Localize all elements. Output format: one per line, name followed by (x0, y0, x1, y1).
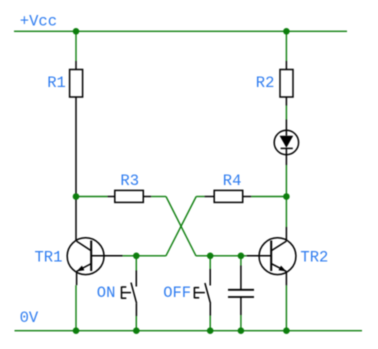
resistor R2 (280, 61, 293, 106)
+Vcc rail wire (14, 30, 347, 32)
switch ON (push-to-make) (122, 271, 137, 317)
junction capacitor / 0V (238, 327, 245, 334)
svg-text:R3: R3 (120, 172, 139, 190)
wire R3 to cross diagonal (151, 196, 166, 198)
wire TR1 base to cross (123, 255, 166, 257)
wire LED to junction (285, 165, 287, 197)
wire R2 to LED (285, 106, 287, 120)
junction +Vcc/R2 (283, 28, 290, 35)
svg-text:ON: ON (97, 284, 116, 302)
wire R1 to TR1 collector (black) (75, 97, 77, 241)
junction TR2 emitter / 0V (283, 327, 290, 334)
wire base to capacitor (240, 256, 242, 266)
svg-text:R2: R2 (256, 74, 275, 92)
svg-text:R1: R1 (47, 74, 66, 92)
svg-text:OFF: OFF (163, 284, 191, 302)
svg-text:R4: R4 (223, 172, 242, 190)
wire TR2 emitter to 0V (285, 285, 287, 330)
transistor TR2 (NPN) (247, 227, 296, 285)
junction TR1 emitter / 0V (73, 327, 80, 334)
wire TR2 base horizontal (196, 255, 247, 257)
svg-text:TR2: TR2 (300, 249, 328, 267)
wire cross-couple R3 to TR2 base (diagonal) (166, 197, 196, 256)
wire base to ON switch (135, 256, 137, 271)
wire ON switch to 0V (135, 316, 137, 331)
junction +Vcc/R1 (73, 28, 80, 35)
junction R1-line/R3 (73, 193, 80, 200)
wire capacitor to 0V (240, 315, 242, 331)
junction TR1 base / ON switch (133, 253, 140, 260)
svg-text:TR1: TR1 (35, 249, 63, 267)
transistor TR1 (mirrored NPN) (67, 238, 122, 285)
LED D1 (274, 120, 298, 166)
wire base to OFF switch (209, 256, 211, 269)
svg-text:+Vcc: +Vcc (20, 13, 57, 31)
wire junction to TR2 collector (285, 197, 287, 228)
junction OFF switch tap (207, 253, 214, 260)
wire cross-couple R4 to TR1 base (diagonal) (166, 197, 196, 256)
switch OFF (push-to-make) (194, 269, 210, 316)
junction OFF / 0V (207, 327, 214, 334)
0V rail wire (15, 330, 363, 332)
wire TR1 emitter to 0V (75, 285, 77, 331)
junction R4/right branch (283, 193, 290, 200)
wire OFF switch to 0V (209, 316, 211, 331)
wire +Vcc rail to R1 (75, 31, 77, 61)
svg-text:0V: 0V (20, 309, 39, 327)
junction ON / 0V (133, 327, 140, 334)
capacitor C1 (228, 266, 254, 316)
resistor R3 (108, 190, 152, 202)
wire +Vcc rail to R2 (285, 31, 287, 61)
wire R4 to right branch (251, 196, 286, 198)
wire diagonal to R4 (196, 196, 204, 198)
resistor R4 (205, 190, 252, 202)
junction capacitor tap (238, 253, 245, 260)
resistor R1 (70, 61, 83, 97)
wire junction to R3 (76, 196, 108, 198)
